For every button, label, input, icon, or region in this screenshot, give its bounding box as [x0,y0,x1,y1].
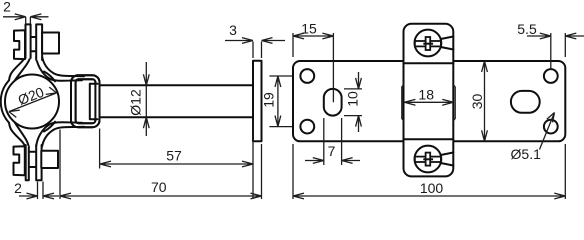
svg-text:7: 7 [328,143,336,159]
svg-text:70: 70 [151,179,167,195]
svg-text:100: 100 [420,180,444,196]
svg-text:2: 2 [14,180,22,196]
svg-text:10: 10 [345,91,361,107]
svg-text:Ø5.1: Ø5.1 [511,146,542,162]
svg-text:19: 19 [261,92,277,108]
svg-text:30: 30 [469,94,485,110]
svg-text:Ø12: Ø12 [128,89,144,116]
svg-text:57: 57 [166,148,182,164]
svg-text:2: 2 [3,0,11,15]
svg-text:18: 18 [418,87,434,103]
svg-text:3: 3 [229,22,237,38]
svg-text:15: 15 [301,21,317,37]
svg-text:5.5: 5.5 [517,21,537,37]
